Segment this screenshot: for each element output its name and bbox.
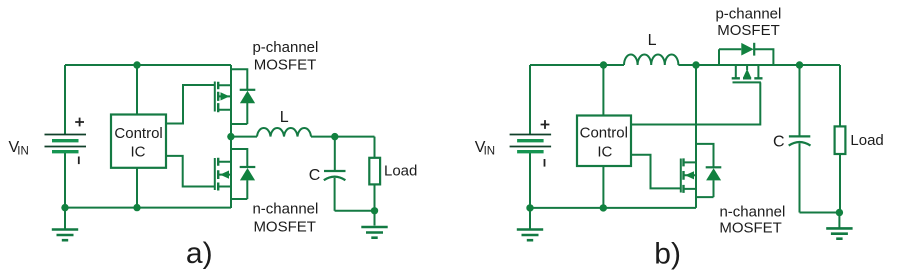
svg-text:n-channel: n-channel	[719, 203, 785, 220]
svg-text:p-channel: p-channel	[715, 6, 781, 23]
svg-text:IN: IN	[484, 146, 496, 158]
svg-text:Control: Control	[114, 125, 162, 142]
svg-text:L: L	[648, 32, 657, 49]
svg-text:MOSFET: MOSFET	[719, 219, 782, 236]
svg-text:MOSFET: MOSFET	[717, 22, 780, 39]
svg-text:IC: IC	[597, 144, 612, 161]
svg-text:n-channel: n-channel	[252, 200, 318, 217]
svg-text:C: C	[309, 167, 321, 184]
svg-text:Control: Control	[580, 125, 628, 142]
svg-text:L: L	[280, 109, 289, 126]
svg-text:Load: Load	[384, 163, 417, 180]
svg-text:b): b)	[654, 238, 681, 271]
svg-text:MOSFET: MOSFET	[254, 57, 317, 74]
svg-text:IN: IN	[17, 146, 29, 158]
svg-text:MOSFET: MOSFET	[253, 219, 316, 236]
svg-text:a): a)	[186, 237, 213, 270]
svg-text:p-channel: p-channel	[252, 39, 318, 56]
svg-text:Load: Load	[850, 132, 883, 149]
svg-text:IC: IC	[131, 144, 146, 161]
svg-text:C: C	[773, 134, 785, 151]
